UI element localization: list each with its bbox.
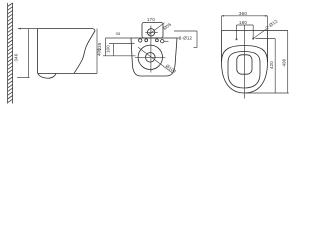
- svg-text:490: 490: [282, 58, 287, 66]
- plan rim back arc: [222, 46, 268, 63]
- side view bottom dim tick: [17, 77, 30, 79]
- rear fixing holes: [139, 39, 142, 42]
- outlet leader: [138, 47, 173, 73]
- rear view top line right stub: [177, 37, 181, 39]
- svg-text:340: 340: [13, 53, 18, 61]
- side view outline: [38, 29, 95, 74]
- plan inner rim oval: [228, 52, 260, 89]
- rear view body: [131, 38, 177, 76]
- plan centerline: [244, 25, 246, 99]
- plan 2-d12 leader: [253, 29, 266, 39]
- rear view upper box: [142, 22, 163, 38]
- outlet crosshair: [135, 56, 165, 58]
- svg-text:100: 100: [106, 45, 111, 53]
- plan view 180 dim: [237, 25, 254, 39]
- outlet circle (large): [138, 45, 162, 69]
- side view height dim line: [96, 29, 98, 74]
- wall hatch: [8, 3, 13, 104]
- svg-text:Ø55: Ø55: [162, 21, 172, 30]
- outlet inner circle: [146, 53, 156, 63]
- inlet circle (small): [147, 29, 154, 36]
- plan outer outline: [222, 31, 268, 94]
- svg-text:35: 35: [116, 31, 121, 36]
- side view trap bump: [38, 74, 56, 79]
- side view wall dim line 340: [28, 29, 30, 78]
- svg-text:360: 360: [239, 11, 247, 16]
- rear view centerline: [150, 26, 152, 73]
- svg-text:180: 180: [239, 20, 247, 25]
- svg-text:135: 135: [97, 42, 102, 50]
- side view bottom edge + extension: [38, 72, 98, 74]
- plan water spot: [237, 55, 252, 74]
- plan view 360 dim: [222, 15, 268, 31]
- plan right dim lines: [246, 31, 289, 94]
- side view top edge extension: [18, 28, 38, 30]
- plan fixing hole dots: [236, 38, 238, 40]
- rear view 2-d12 bracket: [174, 31, 197, 48]
- hole pointer line: [164, 40, 169, 42]
- svg-text:2-Ø12: 2-Ø12: [179, 36, 193, 41]
- svg-text:420: 420: [269, 61, 274, 69]
- inlet leader: [148, 23, 165, 35]
- plan view wall line: [222, 30, 289, 32]
- rear view left dimension lines: [103, 38, 136, 56]
- svg-text:2-Ø12: 2-Ø12: [265, 18, 279, 30]
- svg-text:170: 170: [147, 17, 155, 22]
